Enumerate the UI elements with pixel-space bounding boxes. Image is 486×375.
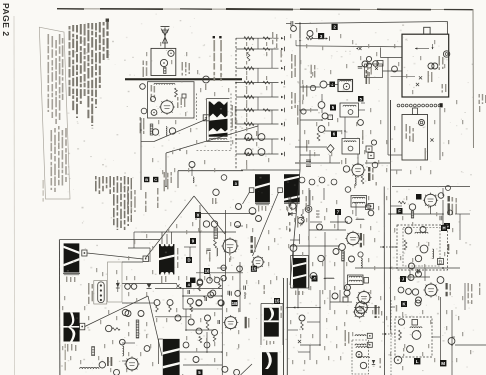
video label text: [345, 330, 350, 346]
terminal guide text: [88, 283, 93, 304]
resistor R100: [156, 306, 159, 312]
wire from E1: [243, 192, 250, 204]
T3 label 5-22: [258, 206, 266, 212]
divider rail left: [283, 278, 285, 375]
resistor R95: [342, 251, 345, 261]
yoke coil L23: [64, 243, 80, 272]
tube V68: [222, 366, 228, 372]
plug M2: [80, 323, 85, 330]
test point H: [441, 225, 447, 231]
tube V41: [358, 252, 363, 257]
X mark feed: [176, 284, 181, 289]
tube V13: [301, 109, 306, 114]
AGC ladder row 5 wire/resistor: [236, 95, 285, 99]
yoke section box edge top: [59, 239, 160, 241]
tube V5 AF: [151, 110, 157, 116]
top border: [57, 9, 473, 10]
tuner text: [151, 85, 156, 102]
tube V112: [236, 204, 242, 210]
node B+: [299, 23, 301, 39]
vert labels text: [199, 220, 230, 262]
tube V32b: [343, 166, 349, 172]
tube V101: [189, 162, 195, 177]
tube V49 6DT6: [423, 282, 438, 297]
tube V22: [249, 208, 256, 215]
quad coil: [344, 141, 356, 142]
tube V30: [322, 113, 328, 119]
plug M4: [368, 204, 374, 210]
CRT grid circle: [428, 63, 438, 69]
resistor R103: [301, 322, 304, 330]
wire vert 2: [225, 210, 227, 281]
pix tube text: [442, 84, 447, 93]
tube V59: [214, 277, 220, 283]
tube V87: [167, 300, 173, 306]
tube V5c: [141, 108, 147, 114]
tube V5b: [150, 96, 155, 101]
T6 label 5-22b: [295, 291, 303, 296]
wire rail 344: [343, 252, 345, 290]
trimmer C51: [366, 205, 371, 210]
resistor R84: [213, 336, 216, 341]
test point C: [153, 177, 158, 182]
resistor R97: [399, 201, 406, 204]
capacitor C32: [358, 67, 362, 69]
yoke section box edge left: [58, 240, 61, 375]
tube complement list text: [95, 176, 132, 230]
test point 9: [190, 238, 196, 244]
capacitor C70: [230, 291, 232, 295]
plug E1: [249, 188, 254, 193]
transformer T2 vertical output: [159, 243, 174, 276]
resistor R83: [199, 336, 202, 343]
resistor R5: [175, 88, 178, 97]
deflection yoke winding: [397, 104, 441, 107]
wire y303: [122, 302, 148, 304]
transformer T7 filter choke: [264, 308, 279, 337]
test point J: [400, 276, 406, 282]
tube V34: [438, 193, 444, 199]
coil L10: [243, 292, 246, 298]
center labels text: [289, 196, 307, 232]
spark gap text: [367, 67, 372, 77]
sound IF transformer T4 can: [284, 174, 300, 202]
plug 1A: [143, 256, 149, 262]
wire x443: [442, 200, 444, 230]
test point 10: [204, 268, 210, 274]
yoke end mark: [440, 103, 443, 107]
power label text: [264, 285, 282, 318]
horiz hold label: [107, 357, 112, 366]
tube V40 6AW8A triode: [345, 231, 361, 247]
wire disc rail: [295, 162, 340, 164]
capacitor C60: [440, 216, 442, 221]
discriminator box: [340, 103, 359, 117]
divider rail right: [286, 278, 288, 375]
resistor R80: [198, 285, 201, 292]
tube V74: [138, 311, 144, 317]
tube V27: [290, 245, 297, 252]
tube V61: [196, 300, 202, 306]
tube V11: [245, 149, 252, 156]
yoke coil L20: [64, 312, 80, 341]
AGC ladder row 8 wire/resistor: [236, 137, 285, 141]
wire audio rail: [140, 118, 142, 190]
tube V78: [99, 362, 105, 368]
test point O5: [197, 370, 203, 375]
tube V81: [310, 85, 315, 90]
tube V52: [415, 300, 421, 306]
tuner left label text: [143, 61, 148, 78]
tube V55: [407, 346, 414, 353]
test point 5a: [358, 96, 364, 102]
capacitor C40: [289, 197, 291, 207]
tube V99: [366, 56, 371, 61]
wire dashed sound: [380, 246, 397, 248]
dashed rail: [390, 300, 392, 375]
wire y288: [155, 288, 222, 290]
AGC ladder row 4 wire/resistor: [236, 80, 285, 84]
capacitor C83: [418, 269, 420, 273]
arrow vert fb: [203, 296, 205, 298]
svg-text:D: D: [187, 258, 190, 263]
service notes paragraph text: [69, 19, 110, 127]
tube V83: [339, 244, 346, 251]
tube V8 sound IF: [203, 76, 210, 90]
wire vert 4: [141, 231, 236, 233]
tube V50: [398, 287, 404, 293]
test point 15: [274, 298, 280, 304]
diode D4: [372, 360, 375, 365]
tube V86: [154, 300, 160, 306]
svg-text:1B: 1B: [232, 301, 239, 306]
sound take-off inner dashed box: [403, 228, 440, 267]
wire rail 309: [308, 188, 310, 290]
filament text: [428, 71, 433, 83]
svg-text:11: 11: [438, 259, 443, 264]
tube V94: [368, 210, 374, 216]
tube V63: [218, 300, 224, 306]
CRT neck: [424, 27, 430, 34]
tube V3 oscillator: [159, 99, 175, 115]
wire x222: [221, 278, 223, 375]
page edge line: [13, 16, 16, 375]
L23 base: [63, 273, 80, 275]
coil L38: [355, 344, 366, 345]
tube V67 6CY7: [223, 315, 238, 330]
coil L32: [356, 347, 368, 348]
wire vert 1: [199, 205, 201, 281]
test point 4: [186, 282, 192, 288]
svg-text:B: B: [145, 177, 148, 182]
chassis ground text: [127, 172, 172, 214]
test point L: [414, 358, 420, 364]
coil L37: [355, 335, 366, 336]
6CY7 label text: [245, 317, 250, 329]
coil L21: [123, 346, 124, 356]
6EB8 label text: [251, 236, 256, 253]
wire diag plug: [141, 119, 207, 142]
disc circle: [348, 110, 353, 115]
test point B: [144, 177, 149, 182]
tube V32c: [372, 162, 378, 168]
test point K: [401, 301, 407, 307]
tube V25: [290, 203, 296, 209]
video dashed box: [352, 340, 369, 374]
resistor R41: [214, 240, 217, 249]
vert osc tube V18: [212, 189, 219, 204]
tube V115: [333, 249, 339, 255]
anode text: [439, 56, 444, 70]
test point 7: [335, 209, 341, 215]
wire yoke diag: [85, 296, 148, 327]
coil L22: [80, 368, 99, 369]
wire from E2: [253, 192, 279, 256]
tube V21: [237, 266, 243, 272]
sound disc transformer box: [351, 196, 367, 208]
tube V24 6EB8: [251, 255, 265, 269]
X marks: [416, 76, 422, 86]
6DT6 label text: [446, 283, 452, 296]
capacitor C30: [306, 160, 311, 167]
test point TP2: [332, 24, 338, 30]
test point 6: [331, 131, 337, 137]
diode D3: [116, 280, 120, 292]
AGC ladder row 2 wire/resistor: [236, 47, 285, 51]
T2 leads: [162, 232, 172, 244]
T3 base: [255, 203, 270, 205]
UHF text: [406, 124, 414, 142]
svg-text:F: F: [398, 209, 401, 214]
quad coil box: [342, 139, 360, 155]
UHF tuner box: [402, 115, 428, 161]
plug M1: [203, 115, 209, 121]
AGC ladder row 1 wire/resistor: [236, 36, 285, 40]
resistor R70: [399, 330, 402, 340]
tube V4 converter: [140, 84, 146, 90]
takeoff coil: [415, 232, 428, 233]
wire v33: [430, 206, 432, 214]
test point TP3: [318, 33, 324, 39]
spark gap box: [365, 64, 383, 78]
tube V85: [131, 284, 137, 290]
resistor R91: [92, 347, 95, 356]
6BZ6 label text: [368, 167, 374, 181]
tube V97: [344, 290, 350, 296]
test point 8: [195, 212, 201, 218]
wire diag bc: [241, 364, 253, 375]
wire yoke diag right: [194, 196, 225, 234]
horiz label col: [380, 305, 405, 368]
tube V54 volume: [412, 330, 421, 340]
tube V103: [362, 61, 368, 67]
tube V44: [409, 263, 415, 269]
wire dashed takeoff: [382, 333, 395, 335]
wire vert 5: [196, 272, 243, 274]
tube V75: [122, 309, 128, 315]
plug 18: [364, 278, 369, 284]
disc text: [297, 105, 363, 164]
tube V64: [188, 319, 194, 325]
legend bullet 2: [219, 36, 222, 81]
plug 12: [412, 320, 418, 326]
tube V42 6DB6: [356, 290, 371, 305]
resistor R30: [306, 37, 313, 40]
T5 frame: [159, 339, 163, 364]
tube V71: [144, 346, 150, 352]
IF text column: [291, 54, 296, 109]
svg-text:H: H: [442, 226, 445, 231]
tube V21h: [218, 300, 224, 306]
tube V70 damper: [124, 356, 139, 371]
tube V21d: [197, 280, 203, 286]
coil L31: [324, 278, 334, 279]
tube V116: [345, 285, 351, 291]
tube V47: [416, 297, 422, 303]
tube V62: [208, 292, 214, 298]
UHF neck: [413, 108, 418, 115]
tube V104: [373, 61, 379, 67]
tube V35: [409, 204, 415, 218]
notes box with numbered service notes: [39, 27, 70, 199]
resistor R96: [361, 176, 364, 184]
page number text PAGE 2: [1, 3, 11, 37]
test point G: [444, 223, 450, 229]
tube V110 6CM7 vert output: [221, 237, 238, 254]
wire y214: [388, 213, 443, 215]
resistor R3 osc adj: [164, 68, 166, 74]
coil L4: [165, 127, 168, 136]
sound take-off dashed box: [397, 225, 448, 270]
UHF jack: [419, 120, 425, 126]
wire yoke diag left: [146, 196, 195, 258]
volume dashed box: [395, 317, 432, 357]
tube V39: [420, 245, 428, 253]
CRT arrows: [415, 44, 434, 50]
6AW8A label 2: [448, 244, 450, 254]
tube V10: [258, 134, 265, 141]
test point F: [397, 208, 403, 214]
plug P6: [367, 333, 372, 338]
resistor R81: [219, 283, 222, 288]
shielded coil can L30: [338, 80, 353, 92]
tube V89: [205, 315, 211, 321]
tube V38: [420, 227, 426, 233]
capacitor C71: [244, 286, 246, 290]
disc circles row: [299, 177, 337, 185]
tube V31: [318, 126, 325, 133]
resistor R101: [169, 306, 172, 312]
wire video rail: [390, 100, 392, 330]
tube V33b: [446, 186, 451, 191]
test point 14: [312, 276, 318, 282]
IF label text: [376, 182, 377, 186]
jack J1: [305, 206, 312, 213]
tube V2 RF amp: [160, 59, 167, 66]
tube V102: [221, 175, 227, 181]
wire h230: [309, 229, 346, 231]
test point 5: [330, 105, 336, 111]
grid cap marker: [416, 194, 422, 200]
wire diag sound: [166, 126, 258, 153]
tube V73: [125, 311, 131, 317]
capacitor C81: [205, 297, 207, 301]
wire to tuner: [312, 36, 330, 40]
sound section dashed box: [197, 94, 232, 151]
tube V45: [416, 271, 422, 277]
tube V113: [349, 256, 355, 262]
tube V7: [169, 128, 175, 134]
tube V12: [258, 149, 265, 156]
plug P7: [367, 342, 372, 347]
speaker label text: [232, 105, 237, 130]
sound IF transformer T3 can: [255, 174, 270, 202]
test point M: [440, 360, 446, 366]
wire x452: [451, 310, 453, 375]
test point 36: [233, 181, 239, 187]
tube V95: [299, 315, 305, 321]
svg-text:15: 15: [275, 299, 280, 304]
tube V37: [405, 227, 412, 234]
6DB6 label text: [375, 305, 383, 318]
wire AGC bus top: [295, 22, 448, 35]
tube V6: [152, 129, 158, 135]
T1 frame: [207, 99, 230, 142]
tube V21e: [210, 290, 216, 296]
tube V79: [114, 369, 120, 375]
tube V107: [356, 352, 362, 358]
plug E2: [278, 188, 283, 193]
tube V65: [196, 328, 202, 334]
tube V114: [318, 255, 324, 261]
tube V105: [345, 187, 351, 193]
wire UHF B+: [388, 100, 440, 160]
tube V21c: [221, 276, 226, 281]
page edge text right: [479, 94, 486, 112]
tube V69: [234, 369, 240, 375]
wire audio rail 2: [165, 153, 167, 187]
resistor R21 vertical: [247, 52, 250, 61]
transformer T5 power: [163, 339, 180, 375]
svg-text:PAGE 2: PAGE 2: [1, 3, 11, 37]
6AW8A label 3: [360, 233, 365, 247]
tube V60: [187, 298, 193, 304]
X mark 2: [356, 47, 362, 50]
yoke dashed box: [108, 262, 123, 302]
IF section bottom edge: [241, 169, 300, 171]
svg-text:C: C: [154, 177, 157, 182]
section border: [392, 186, 470, 188]
diode D2: [147, 284, 152, 289]
wire y283: [122, 283, 155, 285]
X mark UHF: [430, 138, 433, 141]
test point 4a: [330, 82, 336, 88]
tube V51: [406, 289, 412, 295]
wire yoke feed 2: [381, 48, 403, 58]
resistor R102: [206, 322, 209, 330]
disc coil: [343, 105, 356, 106]
X mark O: [298, 340, 301, 343]
tube V100: [366, 63, 371, 68]
capacitor C31: [286, 21, 293, 26]
T4 base: [284, 202, 300, 204]
capacitor C80: [188, 290, 190, 294]
AGC ladder row 3 wire/resistor: [236, 66, 285, 70]
lead-in text: [303, 65, 316, 100]
ladder value labels: [246, 42, 267, 165]
trimmer C50: [328, 115, 333, 120]
coil L2: [154, 83, 175, 84]
